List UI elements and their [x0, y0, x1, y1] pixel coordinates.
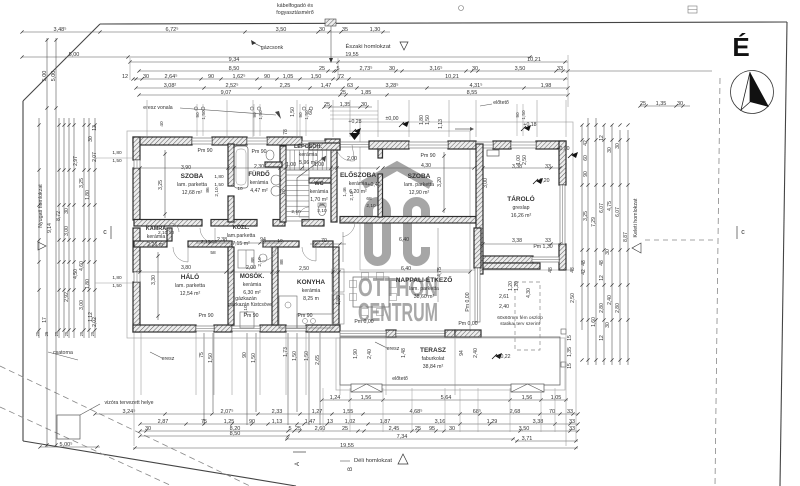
wall bottom segment 306 — [306, 325, 340, 332]
svg-text:Nyugati homlokzat: Nyugati homlokzat — [38, 184, 44, 228]
wall halo/mosok — [228, 247, 234, 325]
survey symbol 2 — [688, 6, 697, 13]
left dim 5,00 b — [55, 38, 57, 447]
window left 272 — [134, 272, 140, 282]
svg-text:48: 48 — [581, 260, 587, 266]
wall central right — [340, 217, 476, 224]
flag 0,00 top — [399, 121, 409, 127]
svg-text:40: 40 — [159, 121, 165, 127]
dim row 9,34/10,21 — [130, 61, 568, 63]
wall corridor lower 188 — [188, 241, 232, 247]
wall central segment 134 — [134, 220, 202, 227]
dim bottom 7,34 — [285, 438, 515, 440]
svg-text:8,50: 8,50 — [230, 431, 241, 437]
dim row 5,00 — [22, 56, 533, 58]
svg-text:gázcsonk: gázcsonk — [261, 45, 284, 51]
svg-text:2,40: 2,40 — [499, 304, 509, 310]
svg-text:1,13: 1,13 — [438, 119, 444, 129]
wall furdo/lepcso — [280, 146, 286, 222]
svg-text:30: 30 — [449, 426, 455, 432]
svg-text:88: 88 — [279, 259, 285, 265]
dim row 25/1,35/30 right — [640, 105, 690, 107]
water meter box — [57, 415, 80, 439]
dim bottom row 3 — [140, 423, 578, 425]
svg-text:2,38: 2,38 — [217, 237, 227, 243]
svg-text:3,16⁵: 3,16⁵ — [430, 65, 443, 72]
svg-text:1,50: 1,50 — [112, 158, 122, 164]
mosok fixtures — [238, 250, 254, 268]
svg-text:+0,28: +0,28 — [348, 119, 361, 125]
window bottom 286 — [286, 326, 306, 331]
svg-text:1,50: 1,50 — [304, 110, 310, 120]
svg-text:3,71: 3,71 — [522, 436, 533, 442]
svg-text:1,80: 1,80 — [419, 115, 425, 125]
svg-text:12,54 m²: 12,54 m² — [180, 291, 201, 297]
window tarolo right — [560, 185, 565, 244]
boundary dashed right — [715, 78, 720, 486]
svg-text:2,45: 2,45 — [389, 426, 400, 432]
svg-text:25: 25 — [54, 331, 59, 336]
window top 192 — [192, 138, 212, 144]
svg-text:2,26 m²: 2,26 m² — [147, 242, 165, 248]
svg-text:33: 33 — [557, 66, 563, 72]
konyha fixtures — [279, 296, 297, 328]
svg-text:90: 90 — [249, 419, 255, 425]
svg-text:±0,00: ±0,00 — [386, 116, 399, 122]
svg-text:Északi homlokzat: Északi homlokzat — [345, 43, 390, 50]
wall top segment 212 — [212, 137, 247, 145]
svg-text:86: 86 — [205, 187, 211, 193]
svg-text:2,50: 2,50 — [299, 266, 309, 272]
svg-text:2,50: 2,50 — [522, 155, 528, 165]
svg-text:1,25: 1,25 — [224, 419, 235, 425]
property boundary bottom-left diagonal — [23, 441, 296, 486]
svg-text:8,55: 8,55 — [467, 90, 478, 96]
svg-text:7,29: 7,29 — [591, 217, 597, 227]
svg-text:1,80: 1,80 — [85, 279, 91, 289]
svg-text:faburkolat: faburkolat — [422, 356, 445, 362]
right dim block — [581, 125, 583, 330]
wall kamra right — [167, 228, 172, 241]
svg-text:10: 10 — [281, 189, 287, 195]
svg-text:2,10: 2,10 — [317, 208, 327, 214]
wall tarolo right upper — [559, 141, 566, 185]
svg-text:25: 25 — [640, 101, 646, 107]
svg-text:95: 95 — [429, 426, 435, 432]
svg-text:1,90: 1,90 — [353, 349, 359, 359]
wall tarolo left — [476, 144, 483, 274]
wall bottom segment 260 — [260, 325, 286, 332]
svg-text:É: É — [732, 32, 749, 62]
svg-text:A: A — [295, 462, 301, 466]
svg-text:7,15 m²: 7,15 m² — [232, 241, 250, 247]
wall top right segment 448 — [448, 141, 476, 149]
property boundary right — [780, 22, 787, 486]
svg-text:2,10 10: 2,10 10 — [201, 239, 217, 245]
svg-text:1,50: 1,50 — [311, 74, 322, 80]
svg-text:kerámia: kerámia — [299, 152, 318, 158]
eaves outline main — [127, 131, 470, 338]
dim bottom 3,71 — [515, 440, 578, 442]
svg-text:1,50: 1,50 — [304, 351, 310, 361]
svg-text:3,50: 3,50 — [276, 27, 287, 33]
svg-text:2,00: 2,00 — [246, 265, 256, 271]
svg-text:1,13: 1,13 — [272, 419, 283, 425]
svg-text:1,98: 1,98 — [541, 83, 552, 89]
svg-text:csatorna: csatorna — [53, 350, 73, 356]
bottom mid vertical dims — [203, 333, 205, 425]
wall nappali bottom post R — [445, 330, 455, 337]
svg-text:8,87: 8,87 — [623, 232, 629, 242]
wall tarolo right lower — [559, 244, 566, 270]
flag tarolo — [568, 152, 578, 158]
svg-text:3,00: 3,00 — [79, 300, 85, 310]
wall bottom segment 214 — [214, 325, 232, 332]
svg-text:lam. parketta: lam. parketta — [409, 286, 439, 292]
svg-text:70: 70 — [321, 238, 327, 244]
window bottom 232 — [232, 326, 260, 331]
dim row 3,08 — [136, 87, 568, 89]
wall tarolo bottom — [483, 256, 533, 263]
svg-text:33: 33 — [569, 426, 575, 432]
nappali sofa — [332, 269, 344, 292]
svg-text:4,31⁵: 4,31⁵ — [470, 82, 483, 89]
svg-text:3,25: 3,25 — [158, 180, 164, 190]
svg-text:kerámia: kerámia — [349, 181, 368, 187]
wall corridor lower 313 — [313, 241, 333, 247]
svg-text:KONYHA: KONYHA — [297, 279, 325, 286]
svg-text:1,50: 1,50 — [290, 107, 296, 117]
svg-text:3,20: 3,20 — [437, 177, 443, 187]
svg-text:60: 60 — [583, 155, 589, 161]
eaves outline right wing — [360, 122, 573, 270]
svg-text:30: 30 — [319, 27, 325, 33]
svg-text:48: 48 — [599, 260, 605, 266]
entrance door gap — [340, 142, 369, 147]
svg-text:1,80: 1,80 — [112, 275, 122, 281]
svg-text:70: 70 — [549, 409, 555, 415]
boundary dashed diagonal 1 — [0, 366, 250, 486]
svg-text:MOSÓK.: MOSÓK. — [240, 272, 265, 280]
svg-text:+0,22: +0,22 — [497, 354, 510, 360]
window left 160 — [134, 160, 140, 168]
svg-text:Pm 90: Pm 90 — [421, 153, 436, 159]
svg-text:1,05: 1,05 — [551, 395, 562, 401]
wall left segment 137 — [133, 137, 140, 160]
wc fixtures — [318, 205, 326, 216]
svg-text:vizóra tervezett helye: vizóra tervezett helye — [104, 400, 153, 406]
window top 247 — [247, 138, 267, 144]
svg-text:68⁵: 68⁵ — [473, 408, 481, 415]
svg-text:3,28⁵: 3,28⁵ — [386, 82, 399, 89]
svg-text:19,55: 19,55 — [340, 443, 354, 449]
svg-text:2,61: 2,61 — [499, 294, 509, 300]
svg-text:8,50: 8,50 — [229, 66, 240, 72]
svg-text:15: 15 — [567, 335, 573, 341]
svg-text:17: 17 — [42, 317, 48, 323]
svg-text:6,40: 6,40 — [401, 266, 411, 272]
svg-text:25: 25 — [44, 331, 49, 336]
svg-text:68: 68 — [319, 202, 325, 208]
svg-text:7,34: 7,34 — [397, 434, 408, 440]
svg-text:2,97: 2,97 — [73, 156, 79, 166]
svg-text:1,35: 1,35 — [656, 101, 667, 107]
svg-text:3,38: 3,38 — [512, 238, 522, 244]
svg-text:1,27: 1,27 — [312, 409, 323, 415]
svg-text:2,25: 2,25 — [280, 83, 291, 89]
svg-text:2,52⁵: 2,52⁵ — [226, 82, 239, 89]
interior dim lines — [140, 167, 378, 169]
svg-text:lam. parketta: lam. parketta — [177, 182, 207, 188]
svg-text:3,48⁵: 3,48⁵ — [54, 26, 67, 33]
svg-text:1,80: 1,80 — [214, 174, 224, 180]
svg-text:2,40: 2,40 — [367, 349, 373, 359]
svg-text:1,35: 1,35 — [340, 102, 351, 108]
wall szoba1/furdo lower — [228, 196, 234, 222]
svg-text:30: 30 — [145, 426, 151, 432]
terasz outline and posts — [340, 337, 560, 385]
svg-text:eresz: eresz — [387, 346, 400, 352]
svg-text:2,10: 2,10 — [243, 305, 249, 315]
svg-text:ELŐSZOBA: ELŐSZOBA — [340, 170, 376, 179]
svg-text:25: 25 — [295, 426, 301, 432]
svg-text:12,90 m²: 12,90 m² — [409, 190, 430, 196]
svg-text:lam. parketta: lam. parketta — [175, 283, 205, 289]
svg-text:1,24: 1,24 — [330, 395, 341, 401]
svg-text:1,50: 1,50 — [292, 351, 298, 361]
dim bottom row 4 — [140, 430, 578, 432]
svg-text:25: 25 — [324, 102, 330, 108]
svg-text:eresz vonala: eresz vonala — [143, 105, 173, 111]
svg-text:2,30: 2,30 — [254, 164, 264, 170]
flag +0,20 — [533, 178, 543, 184]
svg-text:78: 78 — [283, 129, 289, 135]
svg-text:Pm 90: Pm 90 — [252, 149, 267, 155]
svg-text:2,60: 2,60 — [315, 426, 326, 432]
svg-text:90: 90 — [583, 171, 589, 177]
svg-text:2,80: 2,80 — [599, 303, 605, 313]
dim row top boundary — [22, 31, 390, 33]
svg-text:kerámia: kerámia — [243, 282, 262, 288]
wall left segment 228 — [133, 228, 140, 272]
column dashed detail — [515, 282, 540, 350]
svg-text:30: 30 — [64, 208, 70, 214]
svg-text:3,80: 3,80 — [181, 265, 191, 271]
svg-text:10,21: 10,21 — [527, 57, 541, 63]
window nappali right slide — [475, 268, 480, 322]
svg-text:1,46: 1,46 — [342, 187, 348, 197]
svg-text:12: 12 — [122, 74, 128, 80]
svg-text:1,62⁵: 1,62⁵ — [233, 73, 246, 80]
svg-text:33: 33 — [567, 409, 573, 415]
wall left segment 168 — [133, 168, 140, 220]
wall bottom segment 133 — [133, 325, 196, 332]
dim row 8,50 — [139, 70, 712, 72]
svg-text:3,50: 3,50 — [515, 66, 526, 72]
svg-text:fogyasztásmérő: fogyasztásmérő — [276, 10, 313, 16]
wall eloszoba/szoba2 — [378, 174, 383, 217]
svg-text:25: 25 — [319, 66, 325, 72]
svg-text:TERASZ: TERASZ — [420, 347, 446, 354]
svg-text:Pm 90: Pm 90 — [198, 148, 213, 154]
dim row 2,64 — [133, 78, 568, 80]
wall top segment 267 — [267, 137, 302, 145]
svg-text:1,47: 1,47 — [305, 419, 316, 425]
svg-text:2,02: 2,02 — [92, 317, 98, 327]
svg-text:1,50: 1,50 — [521, 110, 527, 120]
wall central segment 273 — [273, 220, 285, 227]
svg-text:3,16: 3,16 — [435, 419, 446, 425]
wall corridor lower 263 — [263, 241, 299, 247]
property boundary top-left diagonal — [23, 24, 100, 101]
svg-text:KÖZL.: KÖZL. — [233, 224, 250, 231]
svg-text:3,00: 3,00 — [64, 226, 70, 236]
svg-text:kerámia: kerámia — [250, 180, 269, 186]
svg-text:2,68: 2,68 — [510, 409, 521, 415]
svg-text:2,92: 2,92 — [64, 292, 70, 302]
wall wc top — [309, 178, 336, 183]
svg-text:2,64⁵: 2,64⁵ — [165, 73, 178, 80]
svg-text:72: 72 — [338, 74, 344, 80]
svg-text:30: 30 — [389, 66, 395, 72]
svg-text:előtető: előtető — [392, 376, 408, 382]
wall corridor lower 134 — [134, 241, 167, 247]
svg-text:LÉPCSŐH.: LÉPCSŐH. — [294, 142, 323, 150]
dim row 9,07 — [139, 94, 568, 96]
wall toilet partition — [265, 162, 282, 167]
svg-text:9,34: 9,34 — [229, 57, 240, 63]
wall top right segment 536 — [536, 141, 566, 149]
svg-text:+0,18: +0,18 — [523, 122, 536, 128]
svg-text:30: 30 — [607, 147, 613, 153]
svg-text:1,50: 1,50 — [425, 115, 431, 125]
svg-text:13: 13 — [327, 419, 333, 425]
svg-text:3,38: 3,38 — [533, 419, 544, 425]
watermark Otthon Centrum logo — [363, 166, 431, 185]
svg-text:5: 5 — [288, 426, 291, 432]
svg-text:statikai terv szerint: statikai terv szerint — [500, 321, 540, 327]
svg-text:4,75: 4,75 — [607, 201, 613, 211]
svg-text:8,72: 8,72 — [56, 211, 62, 221]
svg-text:1,50: 1,50 — [214, 182, 224, 188]
flag terasz — [492, 353, 502, 359]
svg-text:1,29: 1,29 — [487, 419, 498, 425]
svg-text:30: 30 — [143, 74, 149, 80]
svg-text:2,87: 2,87 — [158, 419, 169, 425]
dim bottom row 2 — [95, 413, 578, 415]
svg-text:90: 90 — [195, 112, 201, 118]
svg-text:1,56: 1,56 — [522, 395, 533, 401]
svg-text:2,07: 2,07 — [92, 152, 98, 162]
svg-text:1,50: 1,50 — [208, 353, 214, 363]
svg-text:35: 35 — [342, 27, 348, 33]
svg-text:30: 30 — [605, 322, 611, 328]
svg-text:2,07⁵: 2,07⁵ — [221, 408, 234, 415]
svg-text:25: 25 — [64, 331, 69, 336]
svg-text:33: 33 — [545, 238, 551, 244]
svg-text:lam. parketta: lam. parketta — [404, 182, 434, 188]
svg-text:c: c — [103, 229, 107, 236]
svg-text:1,48: 1,48 — [401, 348, 407, 358]
dim bottom 19,55 — [133, 447, 578, 449]
left dim block — [38, 118, 40, 338]
svg-text:3,25: 3,25 — [583, 211, 589, 221]
wall left segment 282 — [133, 282, 140, 332]
svg-text:88: 88 — [250, 257, 256, 263]
svg-text:38,84 m²: 38,84 m² — [423, 364, 444, 370]
svg-text:1,80: 1,80 — [85, 190, 91, 200]
svg-text:2,10: 2,10 — [349, 191, 355, 201]
svg-text:1,55: 1,55 — [343, 409, 354, 415]
svg-text:12,68 m²: 12,68 m² — [182, 190, 203, 196]
svg-text:1,50: 1,50 — [258, 110, 264, 120]
svg-text:63: 63 — [347, 83, 353, 89]
svg-text:30: 30 — [677, 101, 683, 107]
svg-text:3,00: 3,00 — [483, 178, 489, 188]
window top right 409 — [409, 142, 448, 148]
svg-text:2,40: 2,40 — [473, 348, 479, 358]
svg-text:B: B — [348, 467, 354, 471]
svg-text:33: 33 — [569, 419, 575, 425]
svg-text:25: 25 — [342, 426, 348, 432]
svg-text:WC: WC — [314, 181, 323, 187]
svg-text:90: 90 — [264, 74, 270, 80]
svg-text:1,30: 1,30 — [370, 27, 381, 33]
svg-text:3,08²: 3,08² — [164, 83, 177, 89]
svg-text:38,60 m²: 38,60 m² — [414, 294, 435, 300]
svg-text:Pm 0,00: Pm 0,00 — [354, 319, 373, 325]
dim bottom 8,50 — [140, 435, 290, 437]
svg-text:2,10 10: 2,10 10 — [158, 230, 174, 236]
boundary dashed diagonal 2 — [0, 407, 172, 486]
svg-text:kábelfogadó és: kábelfogadó és — [277, 3, 313, 9]
svg-text:+0,40: +0,40 — [367, 182, 380, 188]
left dim 5,00 a — [46, 38, 48, 447]
svg-text:2,00: 2,00 — [347, 156, 357, 162]
svg-text:8,25 m: 8,25 m — [303, 296, 319, 302]
survey symbol 1 — [459, 6, 464, 11]
svg-text:30: 30 — [615, 143, 621, 149]
svg-text:94: 94 — [459, 350, 465, 356]
tarolo vent notch — [487, 150, 499, 156]
wall mosok/konyha — [272, 247, 278, 325]
svg-text:12: 12 — [599, 335, 605, 341]
svg-text:5,00⁵: 5,00⁵ — [60, 441, 73, 448]
svg-text:2,10: 2,10 — [366, 203, 376, 209]
svg-text:90: 90 — [515, 112, 521, 118]
svg-text:előtető: előtető — [493, 100, 509, 106]
svg-text:1,80: 1,80 — [112, 150, 122, 156]
furdo fixtures — [234, 146, 248, 188]
eaves outline terasz — [336, 338, 565, 390]
wall top segment 133 — [133, 137, 192, 145]
wall szoba1/furdo upper — [228, 144, 234, 186]
door tarolo-terasz — [532, 257, 559, 262]
dim row 25/1,35/30 left — [324, 106, 372, 108]
wall nappali right — [474, 228, 481, 268]
wall wc/eloszoba — [331, 145, 337, 222]
svg-text:HÁLÓ: HÁLÓ — [181, 272, 199, 281]
window bottom 196 — [196, 326, 214, 331]
svg-text:42: 42 — [581, 269, 587, 275]
svg-text:1,05: 1,05 — [283, 74, 294, 80]
svg-text:Keleti homlokzat: Keleti homlokzat — [633, 198, 639, 237]
svg-text:c: c — [741, 229, 745, 236]
svg-text:1,50: 1,50 — [201, 110, 207, 120]
svg-text:Pm 90: Pm 90 — [199, 313, 214, 319]
svg-text:60x60mm fém oszlop: 60x60mm fém oszlop — [497, 315, 543, 321]
window nappali bottom — [396, 331, 445, 336]
